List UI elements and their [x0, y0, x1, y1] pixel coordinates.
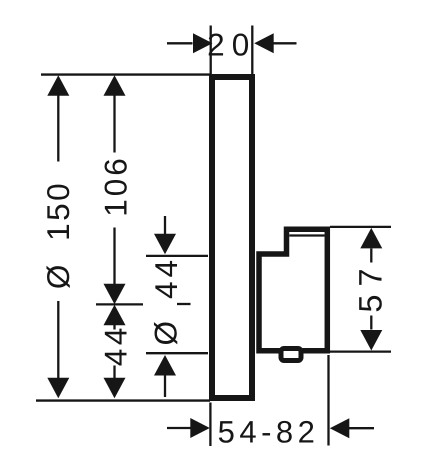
- arrow O150 top (points up): [47, 75, 69, 96]
- svg-text:Ø: Ø: [147, 321, 183, 346]
- arrow 44 top (points up): [104, 305, 126, 326]
- arrow 57 bottom (points down): [360, 330, 382, 351]
- arrow 57 top (points up): [360, 228, 382, 249]
- arrow dim20 right (points left): [254, 33, 274, 53]
- arrow 54-82 right (points left): [330, 418, 350, 438]
- svg-text:20: 20: [207, 27, 256, 63]
- dim 54-82 extension line right: [327, 355, 329, 446]
- top extension line (plate top, left side): [41, 73, 210, 75]
- dim 54-82 left tail: [167, 427, 191, 429]
- handle outline (body + knob): [259, 229, 327, 351]
- svg-text:44: 44: [97, 324, 133, 366]
- dim 54-82 extension line left: [209, 403, 211, 447]
- handle parting line: [289, 234, 324, 236]
- arrow 44 bottom (points down): [104, 378, 126, 399]
- svg-text:54-82: 54-82: [218, 415, 320, 450]
- arrow 106 bottom (points down): [104, 284, 126, 305]
- dim O44 vertical line segments: [164, 216, 166, 236]
- dim 57 top extension line: [330, 226, 391, 228]
- dim 54-82 right tail: [349, 427, 374, 429]
- svg-text:Ø 150: Ø 150: [40, 181, 76, 289]
- handle bottom tab: [281, 349, 301, 361]
- bottom extension line (plate bottom, left side): [36, 399, 210, 401]
- svg-text:57: 57: [353, 260, 389, 312]
- dim 20 extension line right: [251, 26, 253, 75]
- arrow O44 lower (points up, outside): [154, 355, 176, 376]
- dim O44 top tick: [146, 255, 208, 257]
- dim 20 dimension line left tail: [167, 42, 193, 44]
- svg-text:106: 106: [98, 155, 134, 217]
- dim O44 bottom tick: [146, 352, 208, 354]
- dim 20 extension line left: [210, 26, 212, 75]
- dim O150 line segments: [57, 94, 59, 162]
- dim 57 line segments: [370, 249, 372, 263]
- dim 57 bottom extension line: [330, 350, 391, 352]
- svg-text:44: 44: [148, 256, 184, 299]
- arrow 106 top (points up): [104, 75, 126, 96]
- dim 44 (left column) line segments: [113, 325, 115, 330]
- arrow 54-82 left (points right): [190, 418, 210, 438]
- arrow dim20 left (points right): [193, 33, 213, 53]
- center tick at valve axis: [96, 303, 143, 305]
- dim 20 right tail: [274, 42, 297, 44]
- plate (escutcheon side view): [212, 77, 252, 398]
- dim 106 line segments: [113, 94, 115, 153]
- arrow O44 upper (points down, outside): [154, 234, 176, 255]
- arrow O150 bottom (points down): [47, 378, 69, 399]
